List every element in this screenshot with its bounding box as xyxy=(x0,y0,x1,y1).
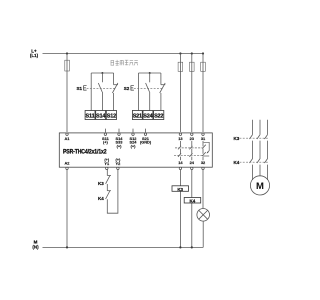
wires K4 to motor xyxy=(252,165,254,180)
svg-text:(GND): (GND) xyxy=(140,140,152,145)
junction dot at fuse F1 tap xyxy=(66,52,68,54)
wire Y1 down xyxy=(106,170,108,176)
motor M1 xyxy=(250,176,269,195)
relay contact 31-32 NC (two in series) xyxy=(202,141,204,146)
svg-text:31: 31 xyxy=(201,136,206,141)
actuator S1 xyxy=(84,86,87,90)
wire lamp to bottom rail xyxy=(202,221,204,247)
terminal 32 xyxy=(202,167,204,169)
actuator S2 xyxy=(131,86,134,90)
fuse F3 xyxy=(190,62,195,71)
wire top supply rail L+ xyxy=(43,53,204,55)
wire loop bottom to Y2 xyxy=(107,170,118,214)
terminal 23 xyxy=(191,133,193,135)
fuse F4 xyxy=(201,62,206,71)
switch S1 NO contact xyxy=(101,73,103,82)
svg-text:A1: A1 xyxy=(65,136,71,141)
svg-text:(L1): (L1) xyxy=(30,53,39,58)
junction dot K3/rail xyxy=(179,246,181,248)
junction dot at 13 tap xyxy=(179,52,181,54)
svg-text:K4: K4 xyxy=(98,196,104,201)
wire S1 left (S11) xyxy=(90,73,92,111)
svg-text:K3: K3 xyxy=(234,136,240,141)
svg-text:Y1: Y1 xyxy=(104,161,110,166)
svg-text:S24: S24 xyxy=(143,114,153,120)
svg-text:PSR-THC4/2x1/1x2: PSR-THC4/2x1/1x2 xyxy=(63,149,106,155)
wire A2 to bottom rail xyxy=(66,170,68,248)
terminal S14/S33 (+) xyxy=(118,133,120,135)
safety relay U1 PSR-THC4/2x1/1x2 body xyxy=(59,133,212,167)
fuse F2 xyxy=(178,62,183,71)
indicator lamp P1 xyxy=(197,209,210,222)
wire bottom return rail M xyxy=(43,246,204,248)
svg-text:(+): (+) xyxy=(131,144,137,149)
node M (N) label xyxy=(32,240,39,250)
relay contact 13-14 (two in series) xyxy=(179,141,181,146)
svg-text:(+): (+) xyxy=(117,144,123,149)
svg-text:K3: K3 xyxy=(177,187,183,192)
terminal 31 xyxy=(202,133,204,135)
svg-text:S12: S12 xyxy=(107,114,116,120)
wire drop to relay 31 xyxy=(202,54,204,133)
wire S1 top rail xyxy=(91,72,113,74)
motor branch L1 wire xyxy=(252,120,254,135)
junction dot S2 xyxy=(149,72,151,74)
svg-text:K4: K4 xyxy=(234,160,240,165)
mechanical link dashed row 1 xyxy=(175,147,203,149)
terminal 24 xyxy=(191,167,193,169)
wire drop to relay 23 xyxy=(191,54,193,133)
svg-text:Y2: Y2 xyxy=(116,161,122,166)
mechanical link S1 (dashed) xyxy=(87,87,115,89)
wire 24 down xyxy=(191,170,193,248)
junction dot S1 xyxy=(101,72,103,74)
svg-text:32: 32 xyxy=(201,160,206,165)
terminal 13 xyxy=(179,133,181,135)
svg-text:S11: S11 xyxy=(86,114,95,120)
stub wire to relay S12 xyxy=(132,129,134,133)
wire 14 down xyxy=(179,170,181,248)
svg-text:S1: S1 xyxy=(76,86,82,91)
wires between K3 and K4 xyxy=(252,141,254,159)
mechanical link S2 (dashed) xyxy=(134,87,162,89)
svg-text:(N): (N) xyxy=(32,244,39,249)
switch S2 NC contact xyxy=(160,73,162,85)
stub wire to relay S14 xyxy=(118,129,120,133)
terminal Y2 (+) xyxy=(117,167,119,169)
svg-text:S22: S22 xyxy=(154,114,163,120)
svg-text:A2: A2 xyxy=(65,161,71,166)
wire S2 top rail xyxy=(139,72,161,74)
terminal box S14 xyxy=(96,111,106,120)
contactor K4 main contacts xyxy=(250,158,253,163)
switch S2 NO contact xyxy=(149,73,151,82)
mechanical link K4 (dashed) xyxy=(240,161,270,163)
terminal S21 (GND) xyxy=(144,133,146,135)
contactor K3 main contacts xyxy=(250,134,253,139)
svg-text:13: 13 xyxy=(178,136,183,141)
junction dot at 31 tap xyxy=(202,52,204,54)
svg-text:S2: S2 xyxy=(124,86,130,91)
terminal box S11 xyxy=(85,111,95,120)
contactor coil K4 xyxy=(184,198,201,204)
svg-text:M: M xyxy=(256,181,264,192)
wire A1 drop from rail to relay terminal A1 xyxy=(66,54,68,133)
contact K4 aux NC xyxy=(106,191,110,199)
svg-text:23: 23 xyxy=(190,136,195,141)
motor branch L3 wire xyxy=(267,120,269,135)
wire 32 down to lamp xyxy=(202,170,204,209)
terminal Y1 (+) xyxy=(106,167,108,169)
forced-guidance bracket with arrow on 31-32 xyxy=(204,142,210,151)
terminal S12/S24 (+) xyxy=(132,133,134,135)
terminal box S24 xyxy=(143,111,153,120)
wire S2 left (S21) xyxy=(138,73,140,111)
caption two-hand control switch (CJK) xyxy=(111,60,138,66)
terminal A1 xyxy=(66,133,68,135)
wire between aux contacts xyxy=(106,184,108,191)
stub wire to relay S11 xyxy=(104,129,106,133)
terminal A2 xyxy=(66,167,68,169)
junction dot at 23 tap xyxy=(191,52,193,54)
junction dot K4/rail xyxy=(191,246,193,248)
svg-text:24: 24 xyxy=(190,160,195,165)
fuse F1 xyxy=(65,60,70,71)
wire drop to relay 13 xyxy=(179,54,181,133)
terminal box S21 xyxy=(132,111,142,120)
switch S1 NC contact xyxy=(113,73,115,85)
svg-text:(+): (+) xyxy=(103,140,109,145)
svg-text:K4: K4 xyxy=(190,199,196,204)
motor branch L2 wire xyxy=(259,120,261,135)
svg-text:S21: S21 xyxy=(133,114,142,120)
svg-text:K3: K3 xyxy=(98,181,104,186)
svg-text:S14: S14 xyxy=(96,114,106,120)
node L+ (L1) label xyxy=(30,48,39,57)
mechanical link K3 (dashed) xyxy=(240,137,270,139)
contact K3 aux NC xyxy=(106,176,110,184)
junction dot A2/rail xyxy=(66,246,68,248)
terminal 14 xyxy=(179,167,181,169)
mechanical link dashed row 2 xyxy=(174,154,203,156)
contactor coil K3 xyxy=(172,186,189,192)
terminal S11 (+) xyxy=(104,133,106,135)
svg-text:14: 14 xyxy=(178,160,183,165)
terminal box S22 xyxy=(154,111,164,120)
relay contact 23-24 (two in series) xyxy=(191,141,193,146)
terminal box S12 xyxy=(106,111,116,120)
stub wire to relay S21 xyxy=(145,129,147,133)
